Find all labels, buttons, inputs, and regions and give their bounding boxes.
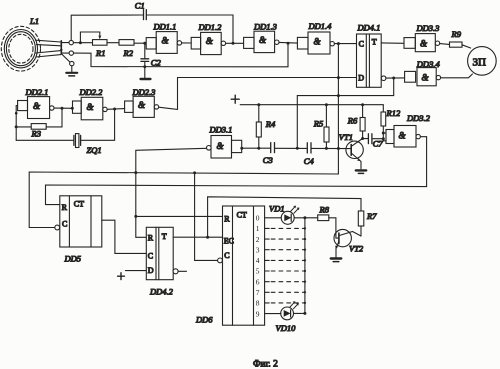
wire DD1.4 out to DD4.1 C input: [334, 43, 356, 45]
wire R3 left lead: [16, 126, 31, 128]
svg-text:DD5: DD5: [64, 254, 82, 264]
wire top rail right segment down to DD1.2 output node: [147, 15, 233, 43]
ground under VT1 emitter: [356, 170, 366, 173]
svg-text:C4: C4: [304, 156, 315, 166]
logic gate DD1.3: [244, 31, 279, 52]
svg-text:&: &: [162, 36, 169, 46]
wire DD4.1 inverted output to DD3.4: [386, 77, 405, 79]
resistor R5: [324, 105, 329, 149]
logic gate DD1.4: [297, 32, 334, 54]
svg-text:9: 9: [256, 309, 260, 318]
resistor R9: [450, 42, 463, 47]
svg-text:8: 8: [256, 299, 260, 308]
capacitor C4: [307, 143, 311, 153]
node junction D-output riser tap: [392, 77, 395, 80]
wire R1 to R2: [107, 42, 119, 44]
svg-text:DD3.3: DD3.3: [416, 23, 440, 33]
capacitor C3: [271, 143, 275, 153]
node junction R4 bottom: [257, 147, 260, 150]
svg-text:DD2.1: DD2.1: [25, 87, 49, 97]
node junction R3 left: [15, 125, 18, 128]
svg-text:DD6: DD6: [195, 315, 213, 325]
wire DD1.1 out to DD1.2 in: [182, 42, 192, 44]
wire DD2.1 out to DD2.2 in: [54, 107, 73, 109]
logic gate DD3.4: [405, 68, 441, 86]
wire DD6 output 0 to VD1: [265, 217, 282, 219]
wire DD5 output to DD4.2 C input: [102, 220, 147, 253]
wire DD4.2 T output to DD6 EC: [173, 236, 222, 238]
node junction bus at chain row: [337, 147, 340, 150]
svg-text:6: 6: [256, 277, 260, 286]
node junction at x=80: [79, 41, 82, 44]
capacitor C2: [141, 59, 149, 62]
node junction R3 tap: [61, 107, 64, 110]
wire ZQ1 right lead up to DD2.2 output node: [81, 109, 115, 140]
svg-text:DD2.2: DD2.2: [79, 87, 104, 97]
svg-text:&: &: [422, 73, 429, 83]
node junction R5 top: [325, 103, 328, 106]
node junctions on LED bus: [303, 227, 306, 315]
resistor R12: [381, 112, 386, 141]
svg-text:VT2: VT2: [349, 244, 364, 254]
svg-text:R1: R1: [95, 48, 105, 58]
svg-text:ZQ1: ZQ1: [87, 145, 102, 155]
counter DD5: [55, 196, 102, 247]
wire R9 to sounder: [462, 45, 471, 48]
svg-text:DD4.1: DD4.1: [357, 23, 381, 33]
node junction R7 line tap: [206, 236, 209, 239]
svg-text:&: &: [399, 131, 406, 141]
wire DD2.2 out to DD2.3 in: [107, 108, 124, 111]
node junction bus at inverted-output line crossing: [337, 94, 340, 97]
wire LED bus vertical: [304, 218, 306, 314]
wire ZQ1 left lead: [16, 139, 73, 141]
svg-text:C: C: [148, 251, 153, 260]
plus supply symbol top: [231, 95, 239, 103]
svg-text:R: R: [148, 233, 154, 242]
svg-text:T: T: [372, 37, 377, 46]
node junction bus tap on D line: [337, 76, 340, 79]
node junction at DD2.2 input: [71, 107, 74, 110]
ground bar below C2: [141, 78, 151, 80]
wire DD1.3 out to DD1.4 in: [279, 41, 297, 44]
svg-text:T: T: [162, 232, 167, 241]
wire DD4.1 T output to DD3.3: [381, 42, 404, 44]
svg-text:R4: R4: [265, 119, 276, 129]
node junction R4 top: [257, 103, 260, 106]
svg-text:2: 2: [256, 235, 260, 244]
svg-text:VD10: VD10: [276, 323, 297, 333]
wire D line to DD4.1: [178, 77, 357, 79]
svg-text:&: &: [217, 141, 224, 151]
svg-text:Фиг. 2: Фиг. 2: [253, 360, 278, 369]
svg-text:C: C: [224, 251, 229, 260]
LED VD1: [281, 206, 299, 225]
svg-text:C7: C7: [373, 139, 384, 149]
svg-text:DD2.3: DD2.3: [132, 87, 156, 97]
wire VD10 to bus: [294, 312, 305, 314]
svg-text:R9: R9: [451, 29, 462, 39]
node junction on left riser: [15, 112, 18, 115]
wire riser chain node to inverted-output line: [297, 78, 393, 148]
wire C7 right lead: [372, 138, 383, 140]
svg-text:C2: C2: [151, 58, 162, 68]
node junction riser to D-output line: [296, 147, 299, 150]
svg-text:&: &: [206, 36, 213, 46]
svg-text:DD4.2: DD4.2: [149, 287, 174, 297]
svg-text:R12: R12: [386, 108, 401, 118]
svg-text:DD1.3: DD1.3: [253, 22, 277, 32]
svg-text:L1: L1: [29, 16, 39, 26]
resistor R4: [256, 105, 261, 149]
svg-text:CT: CT: [237, 211, 247, 220]
logic gate DD2.3: [125, 96, 159, 117]
svg-text:DD3.4: DD3.4: [416, 59, 441, 69]
wire DD2.1 input left riser: [16, 106, 17, 141]
svg-text:&: &: [87, 102, 94, 112]
svg-text:&: &: [314, 36, 321, 46]
svg-text:DD1.4: DD1.4: [308, 21, 333, 31]
node junction VT1 collector / C7: [361, 137, 364, 140]
wire plus supply rail: [240, 105, 383, 112]
logic gate DD1.2: [191, 32, 225, 54]
node junction R6 top: [361, 103, 364, 106]
node junction bus tap at C input: [337, 42, 340, 45]
wire DD4.2 inverted output stub: [178, 270, 186, 272]
node junction C2 / feedback line: [143, 65, 146, 68]
logic gate DD2.2: [73, 97, 108, 120]
inductor L1 (loop antenna): [1, 26, 62, 71]
node junction DD6 C riser on line A: [193, 171, 196, 174]
node terminal 2: [61, 51, 73, 55]
svg-text:DD1.1: DD1.1: [153, 22, 177, 32]
wire feedback line terminal2 to DD1.3-DD1.4 node: [74, 43, 289, 67]
node junction R5 bottom: [325, 147, 328, 150]
svg-text:EC: EC: [224, 236, 234, 245]
resistor R3: [31, 124, 46, 130]
logic gate DD3.2: [386, 126, 420, 148]
wire line D to R7: [208, 197, 361, 237]
svg-text:5: 5: [256, 267, 260, 276]
sounder ZP circle: [468, 47, 497, 76]
wire DD2.3 out up to DD4.1 D line: [159, 78, 178, 110]
node junction feedback tap: [287, 42, 290, 45]
svg-text:D: D: [148, 266, 154, 275]
svg-text:&: &: [259, 35, 266, 45]
svg-text:DD1.2: DD1.2: [198, 22, 223, 32]
wire RC chain row: [242, 147, 351, 149]
svg-text:VT1: VT1: [339, 132, 353, 142]
wire DD6 output 9 to VD10: [265, 313, 281, 315]
wire DD3.4 out to sounder: [441, 74, 473, 78]
svg-text:&: &: [420, 39, 427, 49]
svg-text:1: 1: [256, 224, 260, 233]
ground under VT2 emitter: [331, 259, 341, 262]
wire rheostat loop over R1 with wiper arrow: [80, 32, 101, 43]
wire DD6 C input riser: [195, 173, 218, 261]
logic gate DD2.1: [18, 97, 54, 119]
mirrored gate DD3.1: [207, 136, 242, 159]
node junction C2 tap: [143, 42, 146, 45]
capacitor C1: [144, 10, 147, 20]
wire R2 to DD1.1 input: [134, 42, 146, 44]
wire top feedback rail from terminal1 up and right: [71, 15, 143, 40]
svg-text:7: 7: [256, 288, 260, 297]
resistor R7: [358, 211, 364, 236]
resistor R2: [119, 40, 134, 46]
svg-text:R6: R6: [347, 116, 358, 126]
node junction ZQ1 riser tap: [113, 108, 116, 111]
transistor VT2: [334, 229, 361, 257]
svg-text:D: D: [358, 73, 364, 82]
node junction C7 to R12: [382, 137, 385, 140]
DD6 output pin numbers: [256, 214, 260, 319]
node junction DD3.1 input: [240, 147, 243, 150]
svg-text:R5: R5: [313, 119, 323, 129]
svg-text:R: R: [62, 203, 68, 212]
wire R8 to VT2 base: [329, 218, 339, 238]
svg-text:R: R: [224, 215, 230, 224]
svg-text:0: 0: [256, 214, 260, 223]
svg-text:R7: R7: [366, 211, 377, 221]
svg-text:C: C: [62, 219, 67, 228]
node junction bus top: [303, 216, 306, 219]
svg-text:CT: CT: [74, 199, 84, 208]
wire DD3.2 input stubs: [383, 133, 386, 141]
svg-text:R3: R3: [31, 129, 41, 139]
wire DD3.3 out to R9: [440, 43, 450, 46]
wire plus to D input: [125, 270, 146, 272]
transistor VT1: [346, 139, 363, 169]
logic gate DD1.1: [146, 32, 181, 54]
crystal ZQ1: [74, 134, 81, 148]
wire line A DD5 C input: [29, 172, 338, 228]
svg-text:&: &: [138, 100, 145, 110]
counter DD6: [218, 206, 265, 325]
svg-text:VD1: VD1: [269, 204, 285, 214]
wire R3 right lead up to output node: [46, 108, 62, 127]
node junction top rail tap: [232, 42, 235, 45]
node terminal 3: [61, 54, 74, 66]
wire terminal1 to R1: [73, 42, 92, 44]
svg-text:C1: C1: [135, 1, 145, 11]
svg-text:R8: R8: [319, 205, 330, 215]
node junction DD3.1 riser on line A: [134, 171, 137, 174]
dashed outputs 1-8: [265, 228, 270, 303]
node junction branch to DD6 R: [134, 215, 137, 218]
svg-text:3: 3: [256, 245, 260, 254]
wire branch to DD6 R input: [136, 215, 223, 217]
svg-text:DD3.1: DD3.1: [209, 125, 233, 135]
svg-text:ЗП: ЗП: [473, 57, 487, 69]
wire main bus vertical: [337, 44, 339, 174]
capacitor C7: [368, 134, 372, 144]
plus supply symbol at DD4.2 D: [118, 273, 125, 280]
wire VD1 to bus: [294, 217, 305, 219]
wire C2 top lead: [144, 43, 146, 58]
wire C7 left lead: [363, 138, 368, 140]
wire DD3.1 output left and down: [136, 148, 207, 237]
node junction R12 to DD3.2 upper input: [382, 132, 385, 135]
svg-text:C3: C3: [263, 155, 273, 165]
svg-text:&: &: [33, 101, 40, 111]
wire C2 bottom lead to ground bar: [144, 62, 146, 79]
flip-flop DD4.2: [146, 227, 178, 279]
LED VD10: [281, 301, 299, 319]
resistor R8: [318, 215, 329, 221]
flip-flop DD4.1: [357, 34, 386, 87]
svg-text:R2: R2: [123, 48, 134, 58]
resistor R1: [93, 40, 108, 46]
wire DD1.2 out to DD1.3 in: [226, 42, 244, 44]
ground under terminal 3: [66, 66, 77, 76]
svg-text:4: 4: [256, 256, 260, 265]
wire DD3.2 output down to line B: [420, 137, 426, 187]
svg-text:DD3.2: DD3.2: [406, 113, 431, 123]
wire line B to DD5 R input: [46, 185, 427, 205]
resistor R6: [360, 105, 365, 139]
logic gate DD3.3: [404, 34, 440, 52]
wire bus to R8: [305, 217, 318, 219]
svg-text:C: C: [359, 40, 364, 49]
node terminal 1: [61, 40, 73, 44]
